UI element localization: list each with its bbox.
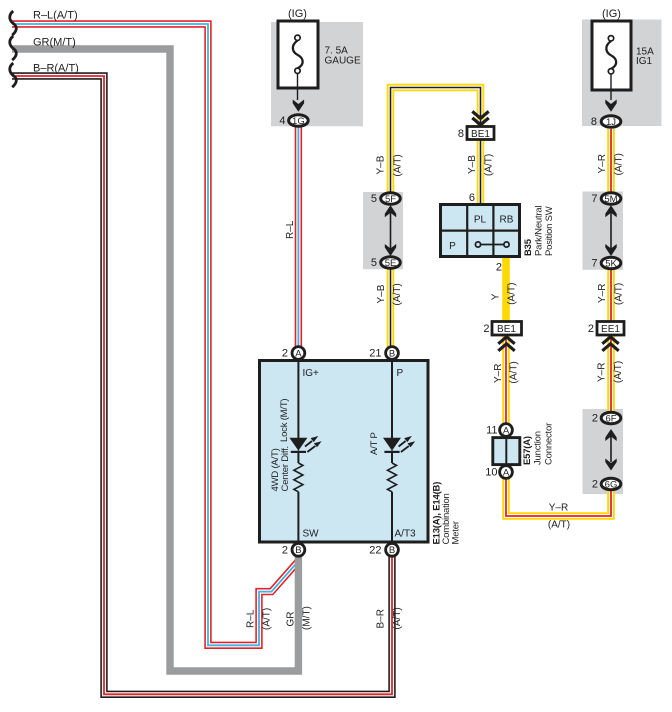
svg-text:B: B <box>389 545 395 556</box>
svg-text:5F: 5F <box>385 194 396 205</box>
double chevron into BE1 top <box>472 111 488 125</box>
svg-text:(A/T): (A/T) <box>614 153 625 175</box>
meter internal wire left <box>297 361 299 439</box>
wire Y-R 1J to 5M <box>610 129 612 195</box>
svg-text:2: 2 <box>496 261 502 273</box>
svg-text:E57(A): E57(A) <box>522 436 533 465</box>
wire GR(M/T) <box>12 49 298 671</box>
wire Y-R EE1 to 6F <box>610 336 612 414</box>
meter pin B bottom right <box>386 543 399 556</box>
svg-text:(A/T): (A/T) <box>613 361 624 383</box>
svg-text:5: 5 <box>371 193 377 205</box>
svg-text:A/T3: A/T3 <box>395 529 417 540</box>
svg-text:6F: 6F <box>605 414 616 425</box>
svg-text:11: 11 <box>486 425 497 437</box>
svg-text:(A/T): (A/T) <box>507 283 518 305</box>
svg-text:1G: 1G <box>292 116 305 127</box>
svg-text:Y–R: Y–R <box>493 364 504 383</box>
connector box BE1 bottom <box>492 322 522 336</box>
resistor right <box>388 463 397 492</box>
svg-text:B–R(A/T): B–R(A/T) <box>33 63 79 75</box>
svg-text:Y–B: Y–B <box>467 155 478 174</box>
svg-text:5E: 5E <box>385 258 397 269</box>
svg-text:GAUGE: GAUGE <box>325 55 361 66</box>
svg-text:(A/T): (A/T) <box>548 520 570 531</box>
svg-text:A: A <box>503 467 510 478</box>
connector oval 5M <box>601 193 621 205</box>
wire R-L fuse branch <box>297 127 299 347</box>
svg-text:2: 2 <box>282 348 288 360</box>
E57 junction connector box <box>493 438 520 465</box>
connector pair arrow 5F/5E <box>390 210 392 250</box>
svg-text:Y: Y <box>490 293 501 300</box>
LED A/T P <box>383 438 401 451</box>
E57 junction connector pin 11 <box>500 424 513 437</box>
combination meter box <box>260 361 429 543</box>
svg-text:(A/T): (A/T) <box>392 283 403 305</box>
connector oval 5K <box>601 257 621 269</box>
svg-text:Lock (M/T): Lock (M/T) <box>279 399 290 442</box>
arrow into 1J <box>605 100 616 112</box>
connector box BE1 top <box>467 127 494 140</box>
svg-text:1J: 1J <box>606 117 616 128</box>
B35 park/neutral position switch box <box>441 205 520 257</box>
connector pair arrow 5M/5K <box>610 210 612 250</box>
LED 4WD/center diff lock <box>289 438 307 451</box>
svg-text:P: P <box>449 241 456 252</box>
svg-text:IG+: IG+ <box>303 368 320 379</box>
svg-text:Center Diff.: Center Diff. <box>280 446 291 491</box>
svg-text:R–L: R–L <box>285 220 296 239</box>
svg-text:10: 10 <box>485 467 497 479</box>
svg-text:A/T P: A/T P <box>369 432 380 455</box>
svg-text:4WD (A/T): 4WD (A/T) <box>270 448 281 491</box>
svg-text:Y–R: Y–R <box>597 363 608 382</box>
connector oval 1J <box>601 116 621 128</box>
svg-text:6: 6 <box>469 192 475 204</box>
connector oval 6G <box>601 478 621 490</box>
svg-text:A: A <box>295 348 302 359</box>
svg-text:A: A <box>503 425 510 436</box>
svg-text:Y–R: Y–R <box>549 503 568 514</box>
svg-text:2: 2 <box>282 545 288 557</box>
svg-text:GR: GR <box>286 612 297 627</box>
svg-text:7: 7 <box>591 258 597 270</box>
svg-text:(A/T): (A/T) <box>484 154 495 176</box>
wire B-R(A/T) <box>12 76 392 694</box>
svg-text:(A/T): (A/T) <box>262 608 273 630</box>
svg-text:6G: 6G <box>605 480 618 491</box>
wire Y-R 5K to EE1 <box>610 268 612 323</box>
meter pin B top <box>386 347 399 360</box>
gray background: GAUGE fuse panel <box>271 22 363 126</box>
svg-text:R–L: R–L <box>246 609 257 628</box>
svg-text:Junction: Junction <box>533 431 544 465</box>
svg-text:BE1: BE1 <box>497 324 516 335</box>
svg-text:22: 22 <box>369 545 381 557</box>
svg-text:RB: RB <box>500 215 514 226</box>
gray background: 5M/5K connector panel <box>583 192 624 270</box>
meter pin B bottom left <box>292 543 305 556</box>
svg-text:2: 2 <box>592 413 598 425</box>
svg-text:(IG): (IG) <box>288 8 307 20</box>
connector oval 5E <box>381 257 401 269</box>
gray background: 5F/5E connector panel <box>363 192 403 269</box>
meter pin A top <box>292 347 305 360</box>
svg-text:Y–R: Y–R <box>597 154 608 173</box>
svg-text:5: 5 <box>371 257 377 269</box>
svg-text:(A/T): (A/T) <box>392 607 403 629</box>
svg-text:EE1: EE1 <box>601 324 620 335</box>
svg-text:B: B <box>389 348 395 359</box>
svg-text:SW: SW <box>303 529 320 540</box>
svg-text:B: B <box>295 545 301 556</box>
resistor left <box>294 463 303 492</box>
gray background: 6F/6G connector panel <box>583 409 624 494</box>
svg-text:5M: 5M <box>604 194 617 205</box>
double chevron into BE1 bottom <box>498 337 514 351</box>
svg-text:2: 2 <box>588 323 594 335</box>
svg-text:5K: 5K <box>605 259 617 270</box>
squiggle cut mark R-L <box>10 11 17 35</box>
svg-text:2: 2 <box>592 479 598 491</box>
arrow into 1G <box>293 100 304 112</box>
svg-text:R–L(A/T): R–L(A/T) <box>33 10 78 22</box>
svg-text:(A/T): (A/T) <box>392 154 403 176</box>
svg-text:B35: B35 <box>523 238 534 256</box>
fuse IG1 box <box>592 21 631 90</box>
fuse IG1 element <box>606 36 616 100</box>
meter internal wire right <box>391 361 393 439</box>
svg-text:Connector: Connector <box>544 423 555 465</box>
wire Y-B 5E to meter pin 21 <box>390 267 392 347</box>
svg-text:P: P <box>397 368 404 379</box>
svg-text:4: 4 <box>279 115 285 127</box>
svg-text:GR(M/T): GR(M/T) <box>33 37 76 49</box>
svg-text:Meter: Meter <box>451 521 462 544</box>
B35 switch contacts <box>481 244 505 246</box>
svg-text:7: 7 <box>591 193 597 205</box>
connector pair arrow 6F/6G <box>610 432 612 462</box>
svg-text:(A/T): (A/T) <box>614 283 625 305</box>
svg-text:21: 21 <box>369 348 381 360</box>
wire Y solid B35 to BE1 <box>502 255 510 323</box>
svg-text:IG1: IG1 <box>636 56 653 67</box>
svg-text:(A/T): (A/T) <box>508 361 519 383</box>
svg-text:Position SW: Position SW <box>544 206 555 256</box>
double chevron into EE1 <box>602 337 618 351</box>
wire Y-R E57 to 6G <box>506 477 611 516</box>
svg-text:PL: PL <box>474 215 487 226</box>
svg-text:8: 8 <box>591 116 597 128</box>
svg-text:(M/T): (M/T) <box>301 606 312 630</box>
svg-text:Park/Neutral: Park/Neutral <box>534 206 545 256</box>
connector oval 6F <box>601 412 621 424</box>
svg-text:8: 8 <box>458 128 464 140</box>
squiggle cut mark B-R <box>10 63 17 87</box>
svg-text:BE1: BE1 <box>471 129 490 140</box>
connector box EE1 <box>597 322 624 336</box>
connector oval 1G <box>289 115 309 127</box>
fuse GAUGE element <box>293 35 303 100</box>
svg-text:2: 2 <box>483 323 489 335</box>
squiggle cut mark GR <box>10 36 17 60</box>
E57 junction connector pin 10 <box>500 466 513 479</box>
wire Y-B BE1 to B35 <box>480 140 482 206</box>
fuse GAUGE box <box>278 21 318 88</box>
connector oval 5F <box>381 193 401 205</box>
svg-text:B–R: B–R <box>376 609 387 628</box>
wire Y-R BE1 to E57 <box>505 336 507 427</box>
wire Y-B upper <box>391 88 481 195</box>
gray background: IG1 fuse panel <box>582 20 662 127</box>
svg-text:Y–B: Y–B <box>376 284 387 303</box>
wire R-L(A/T) main loop <box>12 24 298 645</box>
svg-text:Y–R: Y–R <box>597 284 608 303</box>
svg-text:Y–B: Y–B <box>376 155 387 174</box>
svg-text:(IG): (IG) <box>602 8 621 20</box>
